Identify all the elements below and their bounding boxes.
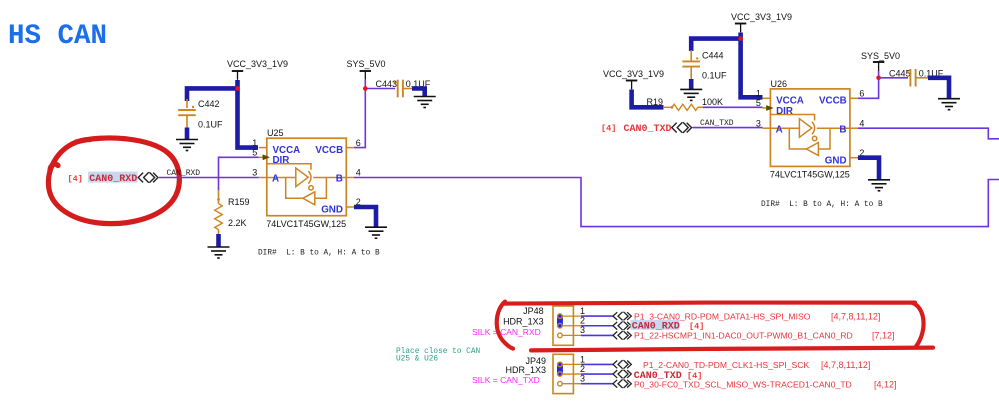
svg-text:100K: 100K xyxy=(702,97,723,107)
off-page connectors JP49 xyxy=(613,360,631,369)
svg-text:3: 3 xyxy=(580,325,585,335)
svg-text:SYS_5V0: SYS_5V0 xyxy=(861,51,900,61)
wire R19 to DIR pin5 xyxy=(703,106,763,108)
svg-text:JP48: JP48 xyxy=(523,306,544,316)
svg-text:0.1UF: 0.1UF xyxy=(702,71,727,81)
svg-text:R159: R159 xyxy=(228,197,250,207)
svg-text:U25: U25 xyxy=(267,128,284,138)
wire CAN_TXD xyxy=(693,127,763,129)
ground at U26 pin2 xyxy=(868,180,890,191)
svg-text:R19: R19 xyxy=(647,97,664,107)
off-page connector CAN0_RXD xyxy=(138,172,158,183)
ground below R159 xyxy=(216,234,221,247)
svg-text:[4,12]: [4,12] xyxy=(874,379,897,389)
svg-text:SILK = CAN_TXD: SILK = CAN_TXD xyxy=(472,375,540,385)
svg-text:HDR_1X3: HDR_1X3 xyxy=(503,317,544,327)
capacitor C442 xyxy=(186,99,188,108)
wire thick to R19 xyxy=(632,90,664,108)
svg-text:HDR_1X3: HDR_1X3 xyxy=(505,365,546,375)
svg-text:C445: C445 xyxy=(889,69,911,79)
wire U26 B out xyxy=(858,128,999,139)
node junction dot xyxy=(738,36,743,41)
svg-text:SYS_5V0: SYS_5V0 xyxy=(347,59,386,69)
svg-text:[4]: [4] xyxy=(68,174,83,184)
ground at C445 xyxy=(938,99,960,110)
wire U26 pin2 to ground xyxy=(858,158,879,180)
svg-text:CAN0_TXD: CAN0_TXD xyxy=(624,124,672,135)
svg-text:P1_2-CAN0_TD-PDM_CLK1-HS_SPI_S: P1_2-CAN0_TD-PDM_CLK1-HS_SPI_SCK xyxy=(643,360,809,370)
JP48 pin wires xyxy=(581,316,613,335)
svg-text:SILK = CAN_RXD: SILK = CAN_RXD xyxy=(472,327,541,337)
wire thick vcc left xyxy=(187,80,258,148)
svg-text:0.1UF: 0.1UF xyxy=(198,120,223,130)
annotation red box around JP48 xyxy=(497,302,933,351)
ground at U25 pin2 xyxy=(365,227,387,238)
svg-text:2.2K: 2.2K xyxy=(228,218,247,228)
svg-text:DIR# L: B to A, H: A to B: DIR# L: B to A, H: A to B xyxy=(258,250,380,258)
resistor R159 xyxy=(218,190,220,204)
wire sys5v0 to pin6 xyxy=(354,80,395,148)
resistor R19 xyxy=(663,106,672,108)
wire U25 pin2 to ground xyxy=(354,207,376,227)
svg-text:P0_30-FC0_TXD_SCL_MISO_WS-TRAC: P0_30-FC0_TXD_SCL_MISO_WS-TRACED1-CAN0_T… xyxy=(634,379,852,389)
wire DIR pulldown xyxy=(219,157,259,190)
power symbol VCC_3V3_1V9 left xyxy=(232,71,243,80)
svg-text:2: 2 xyxy=(580,364,585,374)
wire C443 to ground xyxy=(403,88,413,90)
ground below C444 xyxy=(689,79,694,89)
power symbol xyxy=(735,24,746,33)
svg-text:2: 2 xyxy=(580,315,585,325)
wire U25 B long route xyxy=(354,178,999,227)
svg-text:P1_22-HSCMP1_IN1-DAC0_OUT-PWM0: P1_22-HSCMP1_IN1-DAC0_OUT-PWM0_B1_CAN0_R… xyxy=(634,331,853,341)
svg-text:C444: C444 xyxy=(702,51,724,61)
power symbol xyxy=(873,62,884,71)
svg-text:[4]: [4] xyxy=(601,124,616,134)
wire C445 to ground xyxy=(916,77,929,79)
svg-text:U26: U26 xyxy=(771,79,788,89)
power symbol SYS_5V0 left xyxy=(360,71,371,80)
ground at C443 xyxy=(414,97,436,108)
svg-text:1: 1 xyxy=(580,355,585,365)
node junction dot xyxy=(876,76,881,81)
svg-text:VCC_3V3_1V9: VCC_3V3_1V9 xyxy=(227,59,288,69)
svg-text:U25 & U26: U25 & U26 xyxy=(396,355,438,363)
svg-text:CAN_TXD: CAN_TXD xyxy=(700,119,734,128)
level translator U26 xyxy=(756,89,865,180)
JP49 pin wires xyxy=(581,364,613,383)
svg-text:C442: C442 xyxy=(198,99,220,109)
svg-text:VCC_3V3_1V9: VCC_3V3_1V9 xyxy=(603,69,664,79)
svg-text:VCC_3V3_1V9: VCC_3V3_1V9 xyxy=(731,12,792,22)
svg-text:[4,7,8,11,12]: [4,7,8,11,12] xyxy=(831,311,880,321)
node junction dot xyxy=(235,86,240,91)
annotation red ellipse xyxy=(48,138,179,224)
capacitor C444 xyxy=(690,50,692,61)
svg-text:CAN0_RXD: CAN0_RXD xyxy=(89,174,137,185)
wire thick vcc right xyxy=(691,33,762,98)
off-page connector CAN0_TXD xyxy=(672,122,692,133)
wire CAN_RXD xyxy=(159,177,259,179)
svg-text:C443: C443 xyxy=(376,79,398,89)
svg-text:1: 1 xyxy=(580,306,585,316)
wire U26 pin6 to SYS_5V0 xyxy=(858,71,879,99)
svg-text:HS CAN: HS CAN xyxy=(8,21,107,52)
svg-text:3: 3 xyxy=(580,374,585,384)
wire to C445 xyxy=(879,77,908,79)
level translator U25 xyxy=(252,138,361,229)
node junction dot xyxy=(363,86,368,91)
svg-text:CAN_RXD: CAN_RXD xyxy=(167,169,201,178)
ground below C442 xyxy=(185,128,190,140)
power symbol xyxy=(626,81,637,90)
off-page connectors JP48 xyxy=(613,312,631,321)
svg-text:[7,12]: [7,12] xyxy=(872,331,895,341)
svg-text:DIR# L: B to A, H: A to B: DIR# L: B to A, H: A to B xyxy=(761,201,883,209)
svg-text:[4,7,8,11,12]: [4,7,8,11,12] xyxy=(821,360,870,370)
